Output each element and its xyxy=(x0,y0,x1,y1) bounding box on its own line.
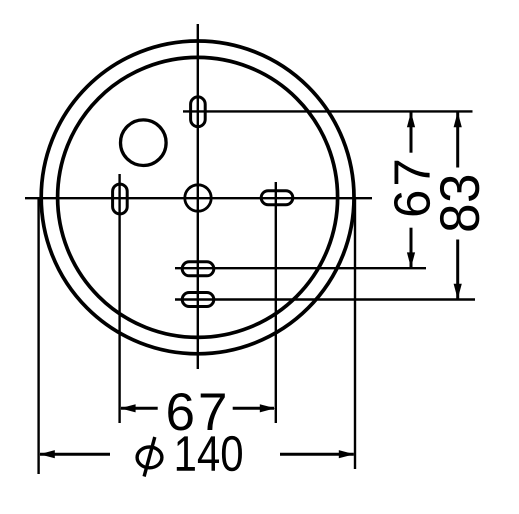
outer circle (plate outline) xyxy=(41,41,354,354)
wire extension line from right slot down xyxy=(275,182,277,423)
label 140 (bottom dimension, digits) xyxy=(177,436,242,471)
left vertical slot xyxy=(113,184,128,214)
arrowhead 67 left (bottom dim) xyxy=(120,404,135,412)
inner circle xyxy=(58,57,338,337)
dimension line 83 vertical (right, outer) xyxy=(456,112,459,167)
wire extension line phi140 left xyxy=(37,198,39,474)
wire extension line from slot A to right xyxy=(175,267,426,269)
top vertical slot xyxy=(191,97,206,127)
wire horizontal centerline xyxy=(25,197,372,199)
dimension line phi140 horizontal (bottom) xyxy=(40,453,110,456)
arrowhead 83 up (right dim) xyxy=(454,112,462,127)
right horizontal slot xyxy=(261,191,293,205)
label 67 (bottom dimension) xyxy=(168,393,225,431)
label phi symbol (diameter) xyxy=(137,437,162,477)
dimension line 67 horizontal (bottom) xyxy=(121,407,158,410)
label 83 (right vertical dimension) xyxy=(440,176,479,231)
label 67 (right vertical dimension) xyxy=(394,161,430,216)
wire extension line from top slot to right xyxy=(183,110,473,112)
arrowhead 67 right (bottom dim) xyxy=(260,404,275,412)
dimension line 67 vertical (right, inner) xyxy=(410,112,413,153)
arrowhead 67 up (right dim) xyxy=(407,112,415,127)
center hole xyxy=(185,185,211,211)
arrowhead phi140 right (bottom dim) xyxy=(339,450,354,458)
wire extension line phi140 right xyxy=(354,198,356,469)
hole (large round hole upper-left) xyxy=(121,120,167,166)
wire vertical centerline xyxy=(197,24,199,369)
lower slot A xyxy=(182,262,214,276)
arrowhead 83 down (right dim) xyxy=(454,284,462,299)
wire extension line from left slot down xyxy=(118,174,120,423)
arrowhead phi140 left (bottom dim) xyxy=(39,450,54,458)
wire extension line from slot B to right xyxy=(175,298,475,300)
arrowhead 67 down (right dim) xyxy=(407,252,415,267)
lower slot B xyxy=(182,293,214,307)
